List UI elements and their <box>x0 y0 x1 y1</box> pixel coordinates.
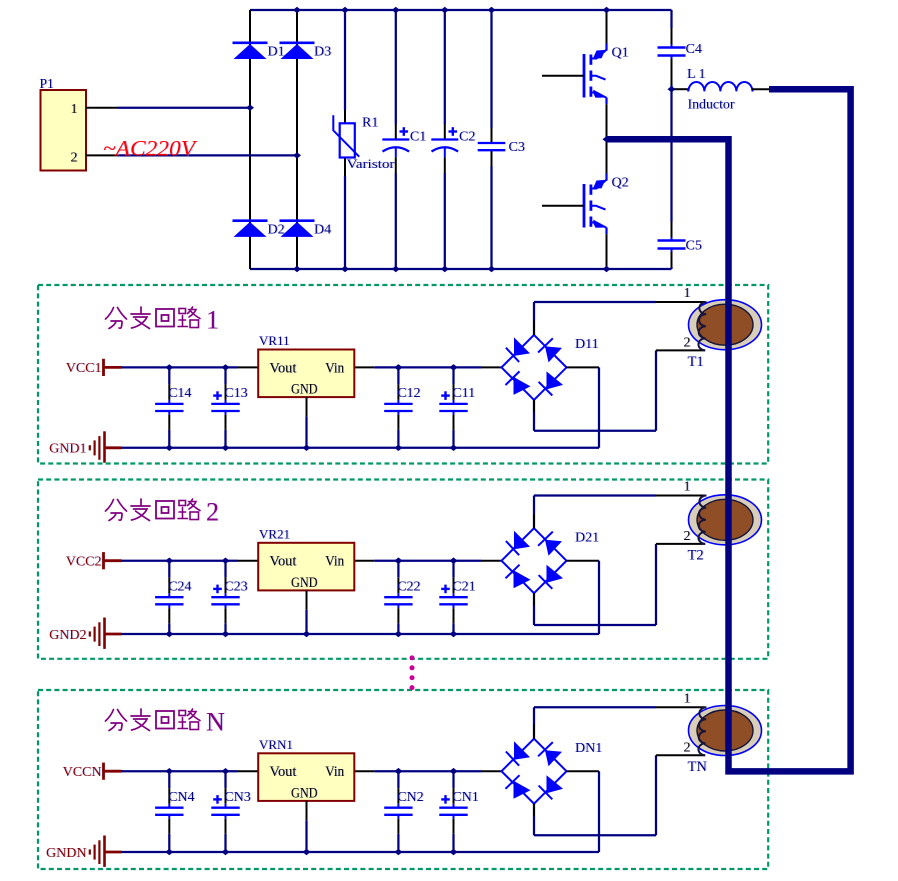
wire: C11 column <box>452 367 454 384</box>
svg-text:Q2: Q2 <box>612 176 629 191</box>
junction C22 bottom <box>394 631 402 637</box>
regulator VRN1 body <box>258 753 354 801</box>
svg-text:1: 1 <box>684 480 691 495</box>
wire: varistor column <box>344 10 346 110</box>
svg-text:2: 2 <box>206 498 219 527</box>
svg-text:GND: GND <box>291 786 318 802</box>
wire: bridge right vertex to ground rail branch N <box>567 770 600 772</box>
svg-text:VR21: VR21 <box>259 526 290 541</box>
svg-text:VCCN: VCCN <box>63 765 102 780</box>
svg-text:P1: P1 <box>40 76 54 91</box>
junction bottom bus / D4 column <box>293 266 301 272</box>
wire: transformer pin2 to bridge bottom branch 2 <box>655 544 657 625</box>
capacitor CN2 <box>384 807 412 809</box>
wire: VCC rail branch 2 <box>121 560 238 562</box>
junction C13 top <box>222 364 230 370</box>
pin 2 stub of TN <box>656 754 705 756</box>
wire: Q2 gate stub <box>542 205 584 207</box>
capacitor C22 <box>384 596 412 598</box>
diode D2 <box>233 219 268 222</box>
capacitor C5 <box>658 239 686 241</box>
junction bottom bus / R1 column <box>341 266 349 272</box>
junction C21 bottom <box>450 631 458 637</box>
capacitor C1 (polarized) <box>382 138 409 140</box>
bridge rectifier DN1 <box>502 739 567 804</box>
svg-text:D3: D3 <box>314 45 331 60</box>
svg-text:C5: C5 <box>686 239 702 254</box>
svg-text:C12: C12 <box>397 386 420 401</box>
svg-text:C13: C13 <box>224 386 247 401</box>
capacitor C13 (polarized) <box>211 403 239 405</box>
transformer TN core <box>697 710 753 751</box>
svg-text:C14: C14 <box>168 386 191 401</box>
svg-text:CN2: CN2 <box>397 790 423 805</box>
svg-text:N: N <box>206 708 225 737</box>
svg-text:D21: D21 <box>575 530 599 545</box>
wire: C24 column <box>168 561 170 578</box>
svg-text:Varistor: Varistor <box>347 156 396 171</box>
svg-text:1: 1 <box>684 286 691 301</box>
junction C14 top <box>165 364 173 370</box>
wire: Q2 source to bottom bus <box>606 234 608 269</box>
svg-text:TN: TN <box>688 759 708 775</box>
svg-text:2: 2 <box>71 151 78 166</box>
wire: C14 column <box>168 367 170 384</box>
junction: pin2 wire on D3 column <box>293 152 301 158</box>
capacitor C24 <box>155 596 183 598</box>
svg-text:Vin: Vin <box>325 360 344 376</box>
wire: left bridge column (D1/D2) <box>249 10 251 269</box>
svg-text:Inductor: Inductor <box>688 98 735 113</box>
junction top bus / D3 column <box>293 7 301 13</box>
svg-text:T2: T2 <box>688 547 704 563</box>
svg-text:T1: T1 <box>688 354 704 370</box>
thick wire: main current loop through transformers <box>607 89 851 771</box>
wire: GND rail branch 1 <box>121 447 599 449</box>
branch box 2 (dashed border) <box>38 480 768 659</box>
svg-text:CN4: CN4 <box>168 790 194 805</box>
capacitor CN4 <box>155 807 183 809</box>
svg-text:GND2: GND2 <box>49 628 86 643</box>
junction C11 top on Vin rail <box>450 364 458 370</box>
wire: C1 column <box>395 10 397 125</box>
junction CN3 top <box>222 768 230 774</box>
junction CN4 top <box>165 768 173 774</box>
capacitor C14 <box>155 403 183 405</box>
junction C12 bottom <box>394 445 402 451</box>
wire: C4/C5 column <box>670 10 672 28</box>
transistor Q2 <box>583 184 586 228</box>
junction: inductor tap on C4 column <box>668 86 676 92</box>
junction C23 bottom <box>222 631 230 637</box>
bridge rectifier D21 <box>502 528 567 593</box>
wire: C21 column <box>452 561 454 578</box>
svg-text:C2: C2 <box>459 130 475 145</box>
varistor R1 <box>340 123 355 157</box>
diode D4 <box>280 219 315 222</box>
wire: bridge right vertex to ground rail branch 2 <box>567 560 600 562</box>
junction C23 top <box>222 558 230 564</box>
wire: CN3 column <box>224 771 226 788</box>
junction CN3 bottom <box>222 849 230 855</box>
svg-text:Vout: Vout <box>269 554 297 570</box>
junction C21 top on Vin rail <box>450 558 458 564</box>
junction VRN1 GND pin on ground rail <box>303 849 311 855</box>
wire: VCC rail branch N <box>121 770 238 772</box>
wire: C2 column <box>444 10 446 125</box>
capacitor C12 <box>384 403 412 405</box>
transformer T1 winding <box>698 302 706 350</box>
wire: bridge top vertex to transformer pin1 branch 2 <box>533 496 535 529</box>
pin 2 stub of T2 <box>656 543 705 545</box>
svg-text:D4: D4 <box>314 223 331 238</box>
wire: VR11 GND pin to ground rail <box>306 397 308 416</box>
wire: transformer pin2 to bridge bottom branch 1 <box>655 350 657 430</box>
wire: Q1 gate stub <box>542 75 584 77</box>
svg-text:Vin: Vin <box>325 764 344 780</box>
wire: bottom DC bus <box>250 268 672 270</box>
wire: Q1 source to Q2 drain (midpoint node) <box>606 104 608 173</box>
junction C14 bottom <box>165 445 173 451</box>
svg-text:C11: C11 <box>452 386 475 401</box>
wire: GND rail branch 2 <box>121 633 599 635</box>
junction top bus / C3 column <box>488 7 496 13</box>
svg-text:GNDN: GNDN <box>46 846 86 861</box>
wire: C13 column <box>224 367 226 384</box>
inductor L1 <box>673 88 688 90</box>
svg-text:1: 1 <box>71 102 78 117</box>
junction CN1 top on Vin rail <box>450 768 458 774</box>
svg-text:Q1: Q1 <box>612 46 629 61</box>
wire: bridge top vertex to transformer pin1 branch N <box>533 707 535 738</box>
capacitor C11 (polarized) <box>439 403 467 405</box>
wire: CN1 column <box>452 771 454 788</box>
svg-text:VCC2: VCC2 <box>66 555 102 570</box>
junction CN1 top <box>450 768 458 774</box>
wire: C12 column <box>397 367 399 384</box>
connector P1 body <box>41 90 87 171</box>
svg-text:2: 2 <box>684 741 691 756</box>
regulator VR21 body <box>258 543 354 591</box>
junction C11 top <box>450 364 458 370</box>
wire: transformer pin2 to bridge bottom branch N <box>655 755 657 835</box>
junction CN2 bottom <box>394 849 402 855</box>
junction C12 top on Vin rail <box>394 364 402 370</box>
svg-text:CN3: CN3 <box>224 790 250 805</box>
capacitor CN1 (polarized) <box>439 807 467 809</box>
capacitor C2 (polarized) <box>431 138 458 140</box>
junction C22 top <box>394 558 402 564</box>
wire: VCC rail branch 1 <box>121 366 238 368</box>
regulator VR11 body <box>258 350 354 398</box>
svg-text:C22: C22 <box>397 580 420 595</box>
svg-text:R1: R1 <box>362 116 378 131</box>
capacitor C3 <box>478 142 506 144</box>
wire: Vin rail branch 1 <box>354 366 374 368</box>
junction: thick loop at Q midpoint <box>603 136 611 142</box>
transformer TN winding <box>698 707 706 755</box>
junction VR21 GND pin on ground rail <box>303 631 311 637</box>
junction CN2 top on Vin rail <box>394 768 402 774</box>
junction top bus / C1 column <box>392 7 400 13</box>
transformer TN core outer ring <box>689 706 762 756</box>
wire: CN2 column <box>397 771 399 788</box>
wire: second bridge column (D3/D4) <box>296 10 298 269</box>
svg-text:VCC1: VCC1 <box>66 361 102 376</box>
bridge rectifier D11 <box>502 335 567 400</box>
svg-text:C24: C24 <box>168 580 191 595</box>
wire: CN4 column <box>168 771 170 788</box>
wire: Vin rail branch N <box>354 770 374 772</box>
wire: top DC bus <box>250 9 672 11</box>
wire: VRN1 GND pin to ground rail <box>306 801 308 820</box>
svg-text:L 1: L 1 <box>687 67 706 82</box>
junction C24 top <box>165 558 173 564</box>
separator dots between branch 2 and branch N <box>410 655 415 660</box>
junction C12 top <box>394 364 402 370</box>
svg-text:D2: D2 <box>268 223 285 238</box>
diode D3 <box>280 41 315 44</box>
svg-text:Vin: Vin <box>325 554 344 570</box>
wire: P1 pin1 to rectifier (node L) <box>86 107 118 109</box>
transformer T2 winding <box>698 495 706 543</box>
svg-text:C3: C3 <box>509 140 525 155</box>
diode D1 <box>233 41 268 44</box>
wire: Q1/Q2 column top <box>606 10 608 44</box>
svg-text:C1: C1 <box>410 130 426 145</box>
wire: Vin rail branch 2 <box>354 560 374 562</box>
junction VR11 GND pin on ground rail <box>303 445 311 451</box>
capacitor CN3 (polarized) <box>211 807 239 809</box>
svg-text:GND1: GND1 <box>49 442 86 457</box>
junction C22 top on Vin rail <box>394 558 402 564</box>
svg-text:~AC220V: ~AC220V <box>103 136 197 161</box>
svg-text:DN1: DN1 <box>575 741 602 756</box>
svg-text:1: 1 <box>684 691 691 706</box>
wire: C23 column <box>224 561 226 578</box>
transformer T2 core <box>697 499 753 540</box>
pin 1 stub of T1 <box>656 301 705 303</box>
wire: P1 pin2 to rectifier (node N) <box>86 154 118 156</box>
wire: bridge top vertex to transformer pin1 branch 1 <box>533 302 535 335</box>
title 分支回路1 <box>106 308 127 329</box>
pin 1 stub of TN <box>656 706 705 708</box>
pin 1 stub of T2 <box>656 495 705 497</box>
junction bottom bus / C3 column <box>488 266 496 272</box>
branch box 1 (dashed border) <box>38 285 768 464</box>
junction CN1 bottom <box>450 849 458 855</box>
transformer T1 core <box>697 304 753 345</box>
junction bottom bus / C2 column <box>441 266 449 272</box>
svg-text:1: 1 <box>206 306 219 335</box>
svg-text:2: 2 <box>684 529 691 544</box>
junction bottom bus / C1 column <box>392 266 400 272</box>
svg-text:C21: C21 <box>452 580 475 595</box>
capacitor C23 (polarized) <box>211 596 239 598</box>
wire: C22 column <box>397 561 399 578</box>
junction C13 bottom <box>222 445 230 451</box>
svg-text:2: 2 <box>684 336 691 351</box>
junction C21 top <box>450 558 458 564</box>
svg-text:C23: C23 <box>224 580 247 595</box>
wire: C3 column <box>490 10 492 128</box>
svg-text:D11: D11 <box>575 337 599 352</box>
junction C24 bottom <box>165 631 173 637</box>
junction top bus / R1 column <box>341 7 349 13</box>
svg-text:VR11: VR11 <box>259 333 290 348</box>
junction CN2 top <box>394 768 402 774</box>
svg-text:GND: GND <box>291 575 318 591</box>
capacitor C4 <box>658 46 686 48</box>
transformer T1 core outer ring <box>689 300 762 350</box>
svg-text:Vout: Vout <box>269 764 297 780</box>
wire: bridge right vertex to ground rail branch 1 <box>567 366 600 368</box>
svg-text:C4: C4 <box>686 42 702 57</box>
svg-text:GND: GND <box>291 382 318 398</box>
title 分支回路2 <box>106 500 127 521</box>
transistor Q1 <box>583 54 586 98</box>
junction CN4 bottom <box>165 849 173 855</box>
svg-text:CN1: CN1 <box>452 790 478 805</box>
junction C11 bottom <box>450 445 458 451</box>
pin 2 stub of T1 <box>656 349 705 351</box>
wire: VR21 GND pin to ground rail <box>306 590 308 609</box>
junction top bus / Q1 column <box>603 7 611 13</box>
svg-text:D1: D1 <box>268 45 285 60</box>
branch box N (dashed border) <box>38 690 768 869</box>
capacitor C21 (polarized) <box>439 596 467 598</box>
junction top bus / C2 column <box>441 7 449 13</box>
wire: GND rail branch N <box>121 851 599 853</box>
svg-text:Vout: Vout <box>269 360 297 376</box>
svg-text:VRN1: VRN1 <box>259 737 293 752</box>
junction: pin1 wire on D1 column <box>246 105 254 111</box>
transformer T2 core outer ring <box>689 495 762 545</box>
junction bottom bus / Q2 column <box>603 266 611 272</box>
title 分支回路N <box>106 710 127 731</box>
